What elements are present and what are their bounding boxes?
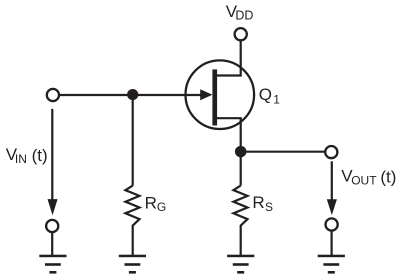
svg-text:OUT: OUT — [351, 174, 377, 188]
svg-text:(t): (t) — [380, 167, 396, 186]
svg-text:S: S — [265, 200, 273, 214]
svg-text:G: G — [157, 200, 166, 214]
svg-text:Q: Q — [259, 85, 272, 104]
svg-text:1: 1 — [273, 93, 280, 107]
svg-text:R: R — [252, 193, 264, 212]
svg-text:IN: IN — [15, 152, 27, 166]
svg-text:(t): (t) — [32, 146, 48, 165]
svg-text:DD: DD — [235, 8, 253, 22]
svg-text:R: R — [145, 193, 157, 212]
